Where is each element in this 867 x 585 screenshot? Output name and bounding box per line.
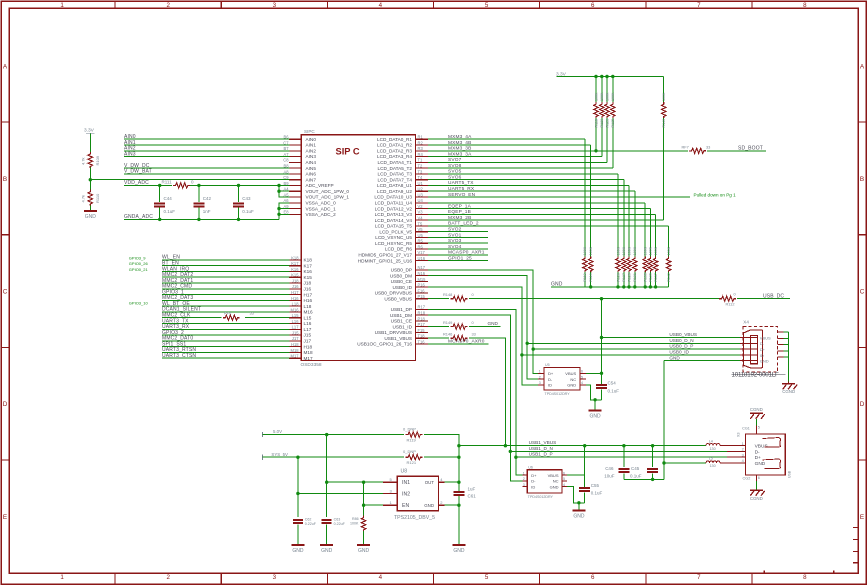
svg-text:3: 3 — [742, 453, 744, 457]
svg-text:AIN3: AIN3 — [124, 151, 136, 157]
svg-text:OSD3358: OSD3358 — [301, 362, 322, 368]
wire vertical USB0_DP down to X4/U5 — [428, 270, 538, 374]
svg-text:R118: R118 — [594, 119, 598, 127]
svg-text:6: 6 — [758, 476, 760, 480]
svg-text:USB0_CE: USB0_CE — [391, 279, 412, 284]
svg-text:V17: V17 — [418, 250, 426, 255]
svg-text:3: 3 — [273, 574, 277, 581]
svg-text:GPIO3_10: GPIO3_10 — [129, 300, 149, 305]
svg-text:GND: GND — [573, 514, 585, 520]
supply symbol 3.3V (left) — [84, 128, 95, 134]
svg-text:C: C — [860, 289, 865, 296]
svg-text:33: 33 — [706, 144, 710, 149]
wire net BT_EN — [162, 261, 289, 267]
svg-text:LCD_DATA6_T3: LCD_DATA6_T3 — [378, 172, 413, 177]
svg-text:100K: 100K — [583, 246, 587, 255]
capacitor C63 0.22uF — [322, 482, 346, 544]
resistor RF7 33 in SD_BOOT line — [682, 144, 711, 153]
ground symbol GND (U6/C55) — [572, 510, 585, 512]
svg-text:Pulled down on Pg 1: Pulled down on Pg 1 — [694, 193, 737, 198]
capacitor C61 1uF — [453, 482, 476, 505]
ground symbol GND (EN pulldown) — [357, 544, 370, 546]
capacitor C62 0.22uF — [293, 494, 317, 545]
wire R110 to GND — [89, 205, 91, 210]
wire net MMC2_DAT1 — [162, 278, 289, 284]
IC left pins (ADC group) stubs, names and pin numbers — [283, 135, 349, 217]
svg-text:T1: T1 — [418, 158, 424, 163]
svg-text:J18: J18 — [292, 278, 299, 283]
wire vertical USB0_ID down to X4/U5 — [428, 287, 538, 385]
svg-text:LCD_DE_R6: LCD_DE_R6 — [385, 247, 412, 252]
svg-text:K18: K18 — [291, 255, 299, 260]
svg-text:N16: N16 — [418, 271, 426, 276]
svg-text:L18: L18 — [292, 302, 300, 307]
wire net VDD_ADC with label — [124, 180, 172, 186]
svg-text:J16: J16 — [292, 284, 299, 289]
svg-text:USB1OC_GPIO1_26_T16: USB1OC_GPIO1_26_T16 — [357, 342, 412, 347]
svg-text:AIN2: AIN2 — [306, 149, 317, 154]
svg-text:LCD_DATA15_T5: LCD_DATA15_T5 — [375, 224, 412, 229]
wire net AIN2 — [124, 146, 289, 152]
ground symbol GND (C62) — [291, 544, 304, 546]
svg-text:R123: R123 — [605, 119, 609, 128]
svg-text:3: 3 — [539, 381, 541, 385]
svg-text:X4: X4 — [743, 320, 749, 325]
wire vertical USB0_DM down to X4/U5 — [428, 276, 538, 380]
svg-text:HDMID5_GPIO1_27_V17: HDMID5_GPIO1_27_V17 — [358, 253, 412, 258]
svg-text:L15: L15 — [304, 315, 312, 320]
svg-text:6: 6 — [591, 574, 595, 581]
svg-text:UART3_CTSN: UART3_CTSN — [162, 353, 196, 359]
svg-text:CGND: CGND — [782, 389, 795, 394]
svg-text:E: E — [3, 514, 7, 521]
svg-text:LCD_DATA13_V3: LCD_DATA13_V3 — [375, 212, 413, 217]
wire 3.3V to R109 — [89, 134, 91, 153]
svg-text:N17: N17 — [418, 265, 426, 270]
resistor R116 100K pull-down — [588, 145, 593, 287]
svg-text:J15: J15 — [292, 330, 299, 335]
svg-text:4: 4 — [379, 2, 383, 9]
wire USB1_VBUS vertical down — [469, 338, 507, 447]
svg-text:GPIO0_21: GPIO0_21 — [129, 267, 149, 272]
svg-text:K18: K18 — [304, 258, 313, 263]
resistor RF8 33 on MMC2_CLK — [223, 311, 254, 321]
svg-text:4: 4 — [379, 574, 383, 581]
svg-text:M17: M17 — [291, 354, 300, 359]
svg-text:H16: H16 — [304, 298, 313, 303]
wire net MCASP0_AXR0 on T16 — [428, 339, 488, 345]
svg-text:R121: R121 — [407, 460, 417, 465]
svg-text:100K: 100K — [667, 246, 671, 255]
svg-text:HDMINT_GPIO1_25_U16: HDMINT_GPIO1_25_U16 — [358, 258, 413, 263]
ferrite bead L5 130 on GND — [706, 457, 727, 469]
wire net SVO7 — [428, 157, 607, 163]
svg-text:U6: U6 — [528, 465, 533, 469]
wire net MMC2_DAT2 — [162, 272, 289, 278]
svg-text:C55: C55 — [591, 483, 600, 488]
wire net SD_BOOT label segment — [707, 145, 766, 151]
wire net USB1_DP vertical — [428, 309, 522, 475]
svg-text:SD_BOOT: SD_BOOT — [738, 145, 763, 151]
wire net UART3_RTSN — [162, 347, 289, 353]
wire net USB0_D_N to X4 with label — [527, 338, 740, 343]
svg-text:GND: GND — [424, 503, 434, 508]
svg-text:R131: R131 — [633, 273, 637, 282]
svg-text:R148: R148 — [443, 292, 452, 297]
wire net USB1_DM vertical — [428, 315, 522, 481]
svg-text:V3: V3 — [418, 210, 424, 215]
svg-text:X3: X3 — [737, 433, 741, 438]
svg-text:0.22uF: 0.22uF — [305, 522, 317, 526]
svg-text:R142: R142 — [667, 273, 671, 282]
svg-text:U8: U8 — [401, 469, 408, 475]
svg-text:AIN7: AIN7 — [306, 177, 317, 182]
svg-text:D: D — [860, 401, 865, 408]
wire divider node to AIN7 pin — [90, 179, 289, 181]
svg-text:T3: T3 — [418, 169, 424, 174]
svg-text:VOUT_ADC_1PW_0: VOUT_ADC_1PW_0 — [306, 189, 350, 194]
svg-text:AIN3: AIN3 — [306, 154, 317, 159]
svg-text:5: 5 — [563, 477, 565, 481]
svg-text:M15: M15 — [418, 277, 427, 282]
svg-text:AIN4: AIN4 — [306, 160, 317, 165]
svg-text:K17: K17 — [291, 261, 299, 266]
wire IN2 from SYS_5V vertical — [296, 457, 383, 495]
ESD protection chip U6 TPD4S012 body — [522, 465, 567, 499]
svg-text:VSSA_ADC_2: VSSA_ADC_2 — [306, 212, 337, 217]
svg-text:ID: ID — [531, 484, 535, 489]
resistor R112 0 ohm — [719, 292, 736, 307]
resistor R119 0_DNP — [403, 426, 422, 442]
IC U1 SIP C (OSD3358) body — [301, 129, 416, 368]
svg-text:100K: 100K — [611, 92, 615, 101]
svg-text:L4: L4 — [709, 439, 713, 443]
svg-text:U1: U1 — [418, 181, 424, 186]
svg-text:C54: C54 — [608, 381, 617, 386]
svg-text:TPD4S012DRY: TPD4S012DRY — [545, 392, 571, 396]
svg-text:4: 4 — [742, 459, 744, 463]
capacitor C45 0.1uF — [630, 446, 658, 480]
resistor R135 100K pull-down — [643, 203, 648, 287]
svg-text:4: 4 — [581, 381, 583, 385]
svg-text:J15: J15 — [304, 333, 312, 338]
wire net MXM3_2B — [428, 215, 664, 221]
svg-text:L17: L17 — [292, 325, 300, 330]
wire net V_DW_DC — [124, 163, 289, 169]
svg-text:R136: R136 — [649, 273, 653, 282]
svg-text:LCD_VSYNC_U5: LCD_VSYNC_U5 — [375, 235, 412, 240]
svg-text:E: E — [860, 514, 864, 521]
svg-text:P18: P18 — [418, 316, 426, 321]
svg-text:LCD_DATA8_U1: LCD_DATA8_U1 — [377, 183, 412, 188]
wire net UART5_RX — [428, 186, 635, 192]
svg-text:USB1_ID: USB1_ID — [392, 324, 412, 329]
svg-text:100K: 100K — [605, 92, 609, 101]
svg-text:L16: L16 — [304, 321, 312, 326]
svg-text:LCD_DATA10_U3: LCD_DATA10_U3 — [374, 195, 412, 200]
ground symbol GND (C63) — [320, 544, 333, 546]
wire net USB0_ID to X4 with label — [522, 350, 740, 355]
wire net SVO4 — [428, 244, 488, 250]
svg-text:0.1uF: 0.1uF — [630, 474, 642, 479]
wire R86 to GND — [363, 531, 365, 544]
svg-text:R4: R4 — [418, 152, 424, 157]
node junction USB1_VBUS start — [457, 444, 460, 447]
svg-text:3: 3 — [523, 483, 525, 487]
power mux U8 TPS2105_DBV_5 body — [383, 469, 445, 522]
svg-text:V_DW_BAT: V_DW_BAT — [124, 169, 152, 175]
svg-text:3.3V: 3.3V — [84, 128, 95, 134]
svg-text:C44: C44 — [164, 196, 173, 201]
svg-text:H17: H17 — [291, 290, 299, 295]
svg-text:0.1uF: 0.1uF — [608, 388, 620, 393]
wire net V_DW_BAT — [124, 169, 289, 175]
svg-text:R135: R135 — [644, 273, 648, 282]
svg-text:R5: R5 — [418, 239, 424, 244]
wire net SYS_5V rail — [262, 456, 404, 459]
wire net WLAN_IRQ — [162, 266, 289, 272]
resistor R123 100K pull-up — [605, 77, 610, 163]
capacitor C43 0.1uF — [233, 185, 254, 219]
svg-text:LCD_DATA14_V4: LCD_DATA14_V4 — [375, 218, 413, 223]
svg-text:USB1_DM: USB1_DM — [390, 313, 412, 318]
svg-text:A: A — [3, 63, 8, 70]
svg-text:R137: R137 — [654, 273, 658, 282]
svg-text:4: 4 — [563, 483, 565, 487]
svg-text:1: 1 — [539, 370, 541, 374]
svg-text:T16: T16 — [418, 339, 426, 344]
wire U5 VBUS pin to C54 vertical — [586, 372, 603, 375]
resistor R140 100K pull-up for MXM3_2B — [661, 77, 666, 221]
svg-text:GND: GND — [567, 383, 576, 388]
ground symbol GND (C61) — [452, 544, 465, 546]
svg-text:GND: GND — [321, 548, 333, 554]
svg-text:7: 7 — [697, 574, 701, 581]
IC right pins (USB1 group) stubs, names and pin numbers — [357, 305, 428, 347]
svg-text:GPIO0_26: GPIO0_26 — [129, 261, 149, 266]
svg-text:7: 7 — [697, 2, 701, 9]
svg-text:P17: P17 — [418, 322, 426, 327]
svg-text:130: 130 — [710, 464, 716, 468]
svg-text:2: 2 — [166, 574, 170, 581]
wire GNDA rail to VSSA pins — [277, 203, 289, 220]
svg-text:L16: L16 — [292, 319, 300, 324]
wire net USB0_VBUS to X4 with label — [602, 332, 741, 337]
wire net WL_EN — [162, 255, 289, 261]
svg-text:100K: 100K — [649, 246, 653, 255]
svg-text:V5: V5 — [418, 227, 424, 232]
svg-text:D-: D- — [548, 377, 553, 382]
svg-text:TPD4S012DRY: TPD4S012DRY — [528, 495, 554, 499]
IC right pins (LCD/HDMI group) stubs, names and pin numbers — [358, 135, 428, 264]
svg-text:2: 2 — [166, 2, 170, 9]
svg-text:AIN6: AIN6 — [306, 172, 317, 177]
svg-text:C42: C42 — [203, 196, 212, 201]
svg-text:1: 1 — [60, 574, 64, 581]
svg-text:8: 8 — [803, 574, 807, 581]
svg-text:B: B — [3, 176, 7, 183]
wire net MMC2_DAT3 — [162, 295, 289, 301]
wire net MCASP0_AXR1 — [428, 250, 488, 256]
svg-text:GND: GND — [590, 414, 602, 420]
svg-text:VSSA_ADC_0: VSSA_ADC_0 — [306, 201, 337, 206]
wire CG2 to chassis ground — [755, 481, 757, 490]
svg-text:C43: C43 — [242, 196, 251, 201]
wire to GND symbol below C55 — [578, 503, 580, 510]
capacitor C42 1nF — [193, 185, 211, 219]
wire X4 shield bus to chassis ground — [788, 332, 790, 382]
node VDD_ADC at C42 — [197, 184, 200, 187]
svg-text:R146: R146 — [443, 331, 452, 336]
svg-text:M16: M16 — [304, 310, 314, 315]
svg-text:100K: 100K — [654, 246, 658, 255]
svg-text:J17: J17 — [304, 339, 312, 344]
resistor R149 0 ohm — [443, 320, 475, 329]
wire GND row to X3 GND pin — [664, 462, 706, 464]
resistor R126 100K pull-down — [616, 174, 621, 287]
svg-text:USB1_D_P: USB1_D_P — [529, 452, 553, 457]
svg-text:LCD_DATA5_T2: LCD_DATA5_T2 — [378, 166, 413, 171]
svg-text:6: 6 — [591, 2, 595, 9]
svg-text:USB0_D_N: USB0_D_N — [669, 338, 693, 343]
svg-text:CG2: CG2 — [743, 477, 751, 481]
wire net GND rail under pull-down bank — [551, 282, 669, 289]
node VDD_ADC at C43 — [237, 184, 240, 187]
wire R109 to divider node — [89, 168, 91, 180]
svg-text:5: 5 — [485, 574, 489, 581]
svg-text:U5: U5 — [418, 233, 424, 238]
svg-text:R149: R149 — [443, 320, 452, 325]
svg-text:USB1_D_N: USB1_D_N — [529, 446, 553, 451]
svg-text:MCASP0_AXR0: MCASP0_AXR0 — [448, 339, 485, 345]
svg-text:100K: 100K — [627, 246, 631, 255]
svg-text:L18: L18 — [304, 304, 312, 309]
resistor R131 100K pull-down — [633, 191, 638, 287]
svg-text:LCD_DATA4_T1: LCD_DATA4_T1 — [378, 160, 413, 165]
node divider junction at AIN7 rail — [89, 178, 92, 181]
title block tick marks (bottom right) — [764, 528, 858, 573]
resistor R136 100K pull-down — [648, 209, 653, 287]
svg-text:H16: H16 — [291, 296, 299, 301]
resistor R127 100K pull-down — [622, 180, 627, 287]
svg-text:R110: R110 — [95, 193, 100, 203]
svg-text:J16: J16 — [304, 287, 312, 292]
svg-text:M18: M18 — [304, 350, 314, 355]
wire net MXM3_4B — [428, 140, 591, 146]
svg-text:C61: C61 — [468, 494, 477, 499]
svg-text:5.0V: 5.0V — [273, 429, 282, 434]
capacitor C54 0.1uF — [596, 381, 619, 400]
svg-text:100K: 100K — [662, 92, 666, 101]
wire net BATT_LED_2 — [428, 221, 668, 227]
svg-text:0.22uF: 0.22uF — [334, 522, 346, 526]
svg-text:LCD_DATA1_R2: LCD_DATA1_R2 — [377, 143, 412, 148]
connector X4 micro-USB 10118192-0001LF — [732, 320, 789, 379]
svg-text:T4: T4 — [418, 175, 424, 180]
wire net AIN0 — [124, 134, 289, 140]
svg-text:ADC_VREFP: ADC_VREFP — [306, 183, 334, 188]
svg-text:USB1_VBUS: USB1_VBUS — [529, 440, 557, 445]
svg-text:AIN5: AIN5 — [306, 166, 317, 171]
wire net SVO8 — [428, 163, 613, 169]
wire net SD_BOOT (MXM3_3B) — [428, 146, 688, 153]
svg-text:K16: K16 — [304, 269, 313, 274]
wire net GPIO3_1 — [162, 289, 289, 295]
wire net SPI1_SS1 — [162, 341, 289, 347]
svg-text:D+: D+ — [760, 347, 766, 352]
svg-text:2: 2 — [742, 448, 744, 452]
svg-text:R1: R1 — [418, 135, 424, 140]
svg-text:C8: C8 — [283, 158, 289, 163]
svg-text:C46: C46 — [605, 466, 614, 471]
IC right pins (USB0 group) stubs, names and pin numbers — [375, 265, 429, 301]
svg-text:LCD_DATA0_R1: LCD_DATA0_R1 — [377, 137, 412, 142]
svg-text:K16: K16 — [291, 267, 299, 272]
svg-text:CG1: CG1 — [742, 426, 750, 430]
wire net UART3_CTSN — [162, 353, 289, 359]
wire net DCAN1_SILENT — [162, 307, 289, 313]
svg-text:LCD_DATA11_U4: LCD_DATA11_U4 — [375, 201, 413, 206]
ferrite bead L4 130 on VBUS — [706, 439, 727, 451]
wire net GND to X4 with label — [664, 355, 740, 360]
svg-text:10118192-0001LF: 10118192-0001LF — [732, 372, 780, 379]
svg-text:D-: D- — [531, 479, 536, 484]
resistor R109 4.7k — [81, 152, 101, 168]
wire net MMC2_DAT0 — [162, 336, 289, 342]
wire GND net from X4 down to X3 area — [624, 361, 666, 481]
svg-text:P15: P15 — [418, 294, 426, 299]
svg-text:CGND: CGND — [750, 407, 763, 412]
wire net SVO1 — [428, 232, 488, 238]
svg-text:GND: GND — [669, 355, 680, 360]
wire net EQEP_1B — [428, 209, 655, 215]
svg-text:A: A — [860, 63, 865, 70]
wire net AIN1 — [124, 140, 289, 146]
svg-text:LCD_HSYNC_R5: LCD_HSYNC_R5 — [375, 241, 412, 246]
svg-text:L5: L5 — [709, 457, 713, 461]
wire U8 GND pin to C61 bottom and down — [444, 504, 460, 545]
resistor R111 0 ohm — [162, 179, 195, 188]
svg-text:D-: D- — [755, 449, 760, 455]
resistor R110 4.7k — [81, 180, 101, 206]
wire net SERVO_EN — [428, 192, 690, 198]
svg-text:J18: J18 — [304, 281, 312, 286]
svg-text:1: 1 — [60, 2, 64, 9]
svg-text:R112: R112 — [726, 302, 735, 307]
svg-text:2: 2 — [523, 477, 525, 481]
svg-text:100K: 100K — [589, 246, 593, 255]
svg-text:LCD_DATA2_R3: LCD_DATA2_R3 — [377, 149, 412, 154]
svg-text:H18: H18 — [304, 344, 313, 349]
wire net USB0_D_P to X4 with label — [533, 344, 740, 349]
svg-text:1uF: 1uF — [468, 486, 476, 491]
resistor R146 33 — [443, 331, 476, 340]
wire net USB1_D_N row with label — [510, 446, 727, 452]
svg-text:SIP C: SIP C — [336, 147, 360, 157]
svg-text:R3: R3 — [418, 146, 424, 151]
svg-text:U2: U2 — [418, 187, 424, 192]
svg-text:M18: M18 — [291, 348, 300, 353]
svg-text:AIN0: AIN0 — [306, 137, 317, 142]
svg-text:R127: R127 — [622, 273, 626, 282]
svg-text:R17: R17 — [418, 305, 426, 310]
svg-text:V2: V2 — [418, 204, 424, 209]
svg-text:2: 2 — [539, 375, 541, 379]
wire net row U4 — [428, 202, 645, 204]
svg-text:ID: ID — [760, 353, 764, 358]
svg-text:GND: GND — [453, 548, 465, 554]
chassis ground symbol CGND (X3 CG1) — [750, 407, 765, 419]
